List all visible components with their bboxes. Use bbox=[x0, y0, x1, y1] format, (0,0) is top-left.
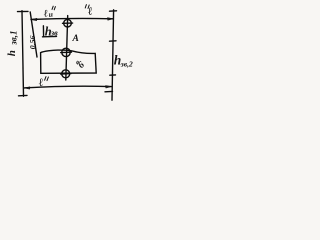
link body rectangle bbox=[41, 50, 97, 73]
label A bbox=[72, 34, 79, 44]
label 0,56 (rotated) bbox=[28, 35, 37, 49]
extension line (slanted) bbox=[30, 12, 37, 57]
hole symbol top (point A) bbox=[63, 19, 73, 27]
svg-text:h: h bbox=[6, 50, 18, 56]
bottom dimension line bbox=[24, 86, 111, 90]
label ℓи' (top left) bbox=[43, 8, 53, 19]
svg-text:A: A bbox=[72, 34, 79, 44]
svg-text:0,56: 0,56 bbox=[28, 35, 37, 49]
hole symbol middle bbox=[61, 48, 72, 56]
label ø6 (slanted) bbox=[74, 58, 87, 70]
right dimension line h_зв,2 bbox=[105, 10, 117, 100]
svg-text:зв,2: зв,2 bbox=[120, 59, 133, 68]
label ℓи' (top right) bbox=[87, 5, 94, 18]
label h_зв underlined bbox=[43, 24, 59, 38]
left dimension line h_зв,1 bbox=[18, 11, 29, 97]
label h_зв,1 (rotated) bbox=[6, 31, 19, 57]
top dimension line bbox=[31, 18, 113, 21]
label ℓ' (bottom) bbox=[38, 77, 45, 90]
hole symbol bottom bbox=[61, 70, 71, 78]
vertical centerline through circles bbox=[66, 16, 68, 80]
svg-text:зв,1: зв,1 bbox=[8, 31, 18, 46]
label h_зв,2 bbox=[114, 53, 133, 69]
background bbox=[0, 0, 143, 113]
